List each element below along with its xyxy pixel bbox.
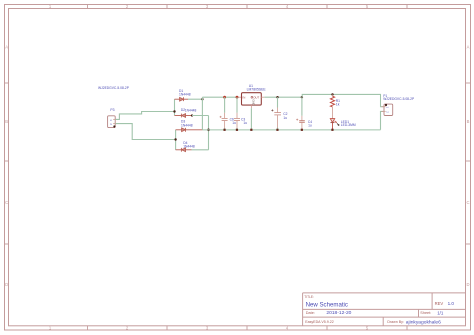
label C2 <box>283 112 287 116</box>
value LED-3MM of LED1 <box>341 123 356 127</box>
label P1 <box>383 94 387 98</box>
ground bus junction dot at C4 <box>301 129 303 131</box>
title block Sheet value 1/1 <box>437 310 444 315</box>
svg-text:1N4448: 1N4448 <box>179 93 191 97</box>
svg-text:B: B <box>467 119 470 124</box>
capacitor C3 <box>234 97 240 130</box>
svg-text:D: D <box>5 282 8 287</box>
label D4 <box>183 141 187 145</box>
title block REV label <box>435 301 444 306</box>
svg-text:1N4448: 1N4448 <box>181 123 193 127</box>
U1 OUT pin stub <box>261 96 264 98</box>
node C4 top junction dot <box>301 96 303 98</box>
resistor R1 <box>330 94 334 118</box>
right border ticks <box>466 83 471 244</box>
title block REV value 1.0 <box>448 301 455 306</box>
op-amp U1 regulator box <box>242 93 262 106</box>
diode D3 <box>176 128 203 132</box>
node dot at D2 anode <box>191 114 193 116</box>
value 1u of C4 <box>308 123 312 127</box>
title block EasyEDA version <box>305 320 334 324</box>
ground bus junction dot at C2 <box>276 129 278 131</box>
capacitor C4 <box>296 97 305 130</box>
node GND-bridge junction dot <box>207 129 210 132</box>
wire P3 pin1 to AC1 node <box>116 112 175 120</box>
title block Date label <box>306 311 315 315</box>
diode D2 <box>175 114 193 118</box>
svg-text:LED-3MM: LED-3MM <box>341 123 356 127</box>
label D1 <box>179 89 183 93</box>
title block Date value 2018-12-20 <box>326 310 351 316</box>
svg-text:A: A <box>5 45 8 50</box>
svg-text:ajinkyagokhale6: ajinkyagokhale6 <box>406 319 441 325</box>
title block frame <box>303 293 466 326</box>
title block TITLE label <box>304 295 314 299</box>
capacitor C6 <box>220 97 228 130</box>
pin-2 red dot of P3 <box>113 125 115 127</box>
svg-text:P3: P3 <box>110 108 114 112</box>
connector P1 <box>382 104 393 115</box>
svg-text:B: B <box>5 119 8 124</box>
value WJ2EDGVC-5.08-2P of P1 <box>383 97 415 101</box>
wire OUT bus U1 to jog <box>264 96 302 98</box>
value 1u of C3 <box>243 121 247 125</box>
ground bus junction dot at C3 <box>236 129 238 131</box>
left border ticks <box>5 83 9 244</box>
value label WJ2EDGVC-5.08-2P of P3 <box>98 86 130 90</box>
capacitor C2 <box>271 97 281 130</box>
title block title value New Schematic <box>306 302 348 309</box>
node C6 top junction dot <box>223 96 226 99</box>
node AC1 junction dot <box>173 110 175 112</box>
wire D4 anode to GND vertical <box>192 149 209 151</box>
label D2 <box>181 108 185 112</box>
svg-text:EasyEDA V5.9.22: EasyEDA V5.9.22 <box>305 320 334 324</box>
svg-text:TITLE:: TITLE: <box>304 295 314 299</box>
label D3 <box>181 120 185 124</box>
value 1N4448 of D4 <box>183 145 195 149</box>
ground bus wire <box>202 129 380 131</box>
bottom border column numbers <box>49 326 369 331</box>
label P3 <box>110 108 114 112</box>
value 1u of C6 <box>232 121 236 125</box>
wire jog up and out bus to P1 corner <box>302 94 384 106</box>
svg-text:C: C <box>5 200 8 205</box>
U1 GND pin stub <box>250 105 252 108</box>
LED LED1 <box>330 119 336 130</box>
node R1 top junction dot <box>331 93 333 95</box>
value 1N4448 of D1 <box>179 93 191 97</box>
title block Sheet label <box>420 311 431 315</box>
svg-text:WJ2EDGVC-5.08-2P: WJ2EDGVC-5.08-2P <box>383 97 415 101</box>
ground bus junction dot at U1 GND <box>250 129 252 131</box>
svg-text:Sheet:: Sheet: <box>420 311 431 315</box>
label LED1 <box>341 120 349 124</box>
bottom border ticks <box>88 326 408 330</box>
wire AC2 vertical <box>175 130 177 150</box>
label C6 <box>230 118 234 122</box>
svg-text:GND: GND <box>251 99 255 105</box>
wire GND vertical D2 to D4 <box>208 116 210 150</box>
svg-text:C: C <box>466 200 469 205</box>
wire IN bus to U1 <box>202 96 238 98</box>
svg-text:D: D <box>466 282 469 287</box>
value 1N4448 of D3 <box>181 123 193 127</box>
svg-text:New Schematic: New Schematic <box>306 302 348 309</box>
value LM7805SEE of U1 <box>247 88 267 92</box>
diode D1 <box>175 97 189 101</box>
wire U1 GND down to ground bus <box>250 108 252 130</box>
svg-text:1u: 1u <box>283 116 287 120</box>
label C4 <box>308 120 312 124</box>
svg-text:1.0: 1.0 <box>448 301 455 306</box>
top border ticks <box>88 5 408 9</box>
svg-text:1u: 1u <box>308 123 312 127</box>
label U1 <box>249 84 253 88</box>
value 1k of R1 <box>336 103 340 107</box>
connector P3 <box>108 116 117 128</box>
node C3 top junction dot <box>236 96 239 99</box>
svg-text:Drawn By:: Drawn By: <box>387 320 404 324</box>
svg-text:1N4448: 1N4448 <box>185 108 197 112</box>
wire plus node vertical to D3 cathode <box>201 97 203 130</box>
LED1 second arrow dark <box>337 123 339 125</box>
ground bus junction dot at LED1 <box>331 129 333 131</box>
svg-text:WJ2EDGVC-5.08-2P: WJ2EDGVC-5.08-2P <box>98 86 130 90</box>
svg-text:1u: 1u <box>243 121 247 125</box>
svg-text:REV: REV <box>435 301 444 306</box>
svg-text:IN: IN <box>242 95 245 99</box>
svg-text:2018-12-20: 2018-12-20 <box>326 310 351 316</box>
wire P3 pin2 to AC2 node <box>116 124 176 140</box>
value 1N4448 of D2 <box>185 108 197 112</box>
wire D1 cathode to plus node <box>188 98 202 100</box>
svg-text:Date:: Date: <box>306 311 315 315</box>
title block Drawn By value <box>406 319 441 325</box>
title block Drawn By label <box>387 320 404 324</box>
node plus junction dot <box>201 98 203 100</box>
svg-text:1k: 1k <box>336 103 340 107</box>
wire ground bus to P1 pin2 <box>381 111 384 129</box>
svg-text:1N4448: 1N4448 <box>183 145 195 149</box>
node AC2 junction dot <box>174 138 176 140</box>
svg-text:LM7805SEE: LM7805SEE <box>247 88 267 92</box>
ground bus junction dot at C6 <box>223 129 225 131</box>
pin-1 red dot of P1 <box>385 104 387 106</box>
diode D4 <box>176 148 192 152</box>
wire D2 anode to GND vertical <box>192 115 209 117</box>
top border column numbers <box>49 4 369 9</box>
U1 IN pin stub <box>238 96 241 98</box>
node C2 top junction dot <box>276 96 278 98</box>
value 1u of C2 <box>283 116 287 120</box>
label C3 <box>241 118 245 122</box>
svg-text:1/1: 1/1 <box>437 310 444 315</box>
svg-text:A: A <box>467 45 470 50</box>
svg-text:1u: 1u <box>232 121 236 125</box>
left border row letters <box>5 45 8 288</box>
label R1 <box>336 99 340 103</box>
wire AC1 vertical <box>174 99 176 115</box>
right border row letters <box>466 45 469 288</box>
